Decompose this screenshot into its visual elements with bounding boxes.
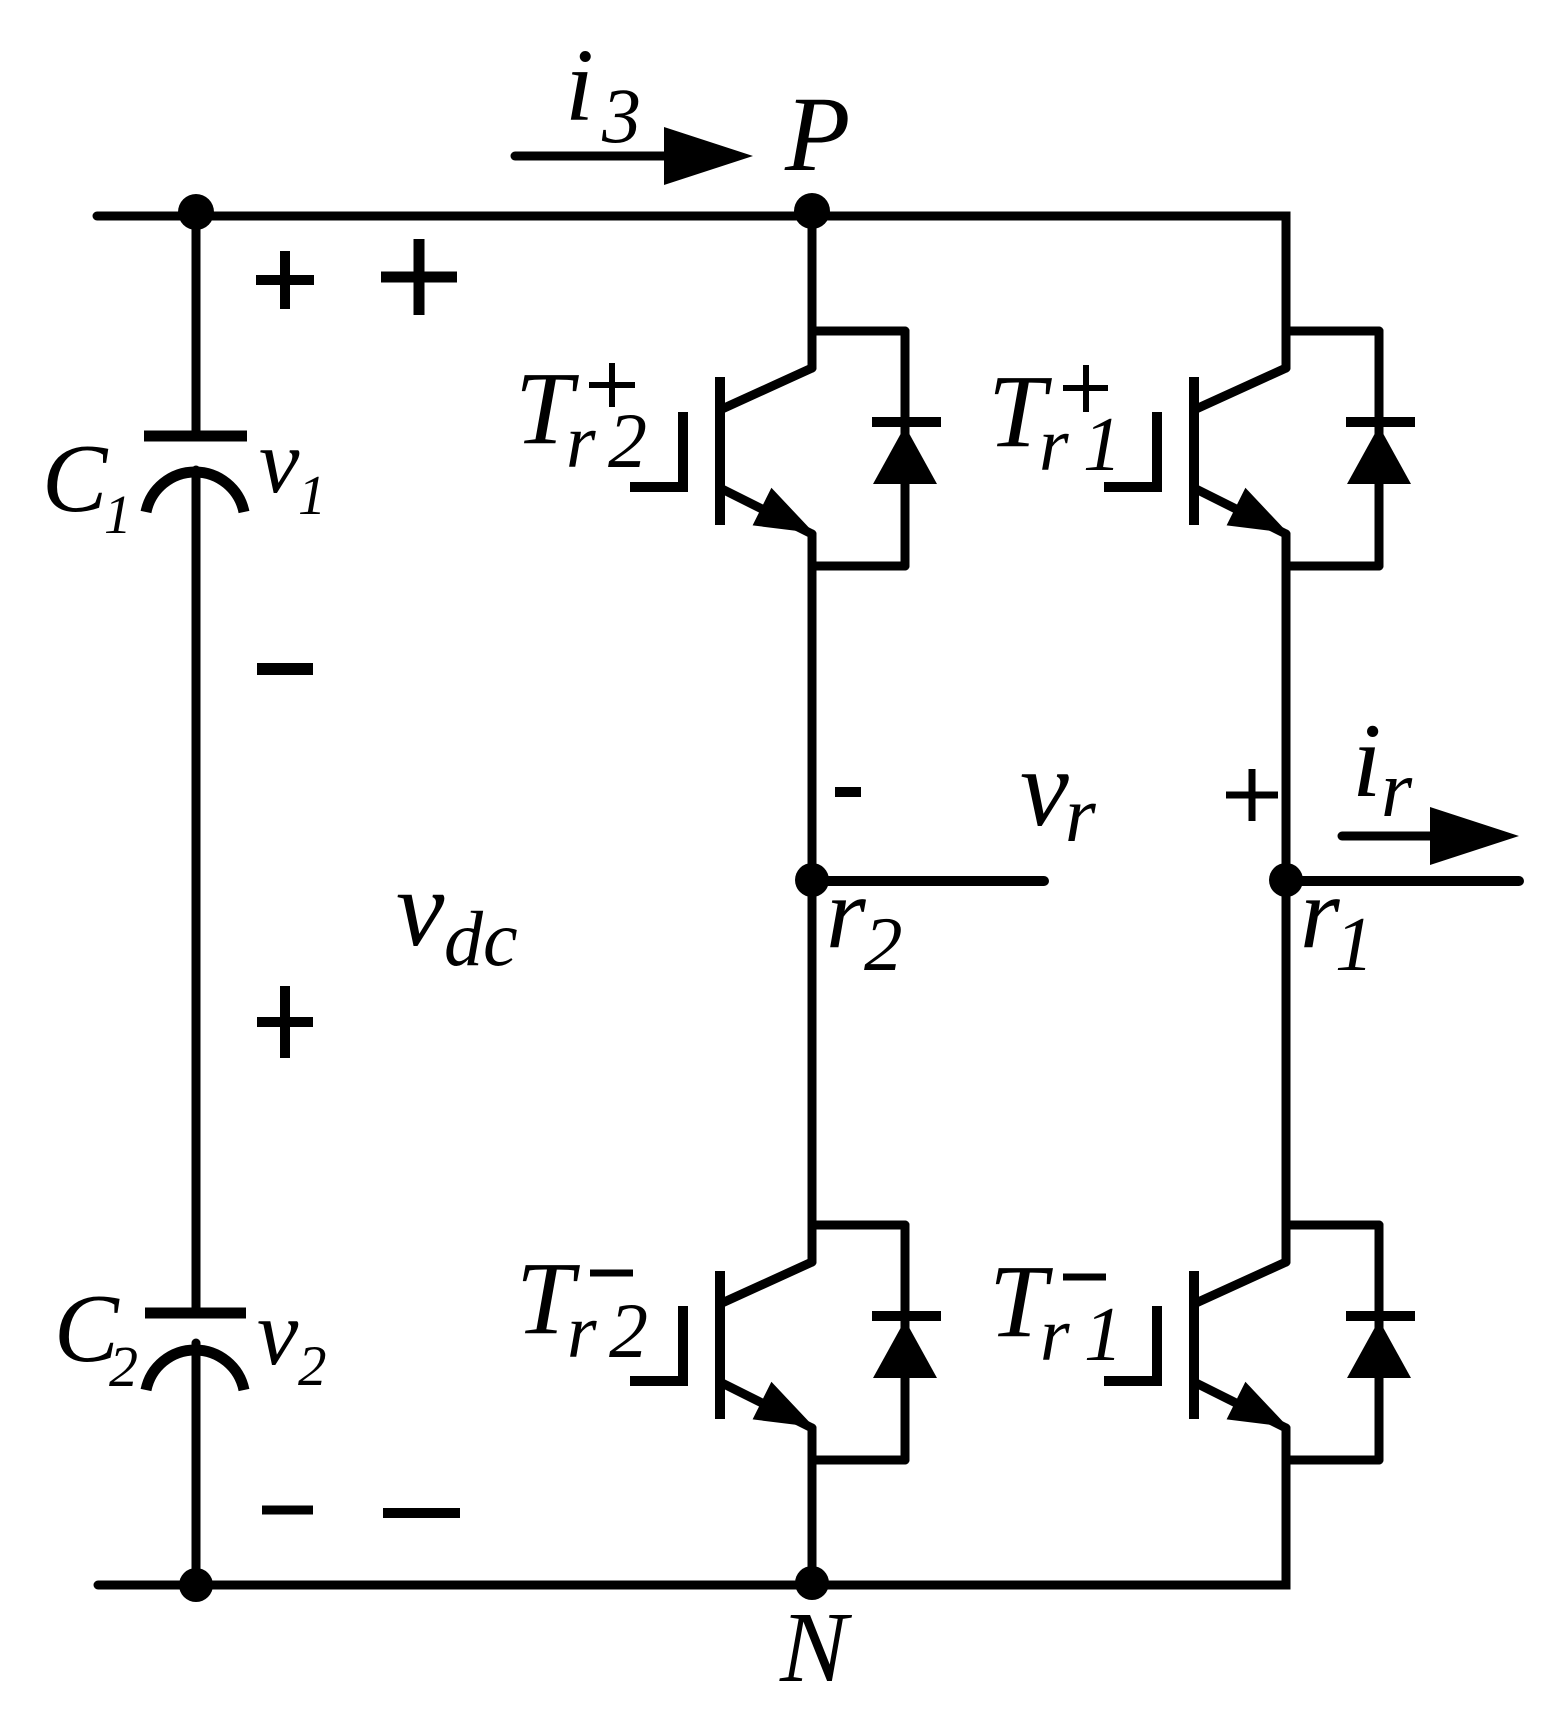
svg-text:3: 3 [601,72,641,159]
plus mark vr right polarity [1226,769,1278,821]
diode D(Tr1+) triangle [1347,426,1411,484]
current arrow ir shaft [1342,832,1436,841]
svg-text:dc: dc [444,895,518,982]
svg-text:2: 2 [608,397,647,484]
wire diode D(Tr2+) vertical [901,331,910,566]
wire diode D(Tr1-) vertical [1375,1225,1384,1460]
svg-text:1: 1 [1084,1291,1123,1377]
svg-text:r: r [1381,746,1413,834]
svg-text:1: 1 [298,465,326,527]
capacitor C2 top plate [145,1308,246,1319]
svg-text:v: v [257,1282,299,1385]
wire diode D(Tr2+) top branch [812,327,905,336]
svg-text:1: 1 [1083,401,1122,487]
svg-text:C: C [42,425,109,533]
node r2 junction dot [795,863,829,897]
wire diode D(Tr1+) top branch [1286,327,1379,336]
wire diode D(Tr1+) bottom branch [1286,562,1379,571]
capacitor C2 curved plate [146,1350,244,1390]
diode D(Tr2-) cathode bar [872,1311,941,1321]
capacitor C1 curved plate [146,472,244,512]
svg-text:v: v [1020,727,1069,849]
node r1 junction dot [1269,863,1303,897]
minus mark v2 polarity [262,1506,313,1515]
superscript minus of Tr1- [1063,1274,1106,1281]
transistor Tr2+ gate bar and lead [630,412,683,487]
svg-text:2: 2 [864,901,903,987]
node junction dot left top [178,194,214,230]
transistor Tr1- emitter arrowhead [1227,1382,1288,1427]
wire diode D(Tr1-) bottom branch [1286,1456,1379,1465]
transistor Tr2+ emitter arrowhead [753,488,814,533]
svg-text:r: r [567,1290,597,1374]
transistor Tr1+ body bar [1189,377,1199,525]
transistor Tr2+ collector wire from P [808,216,817,368]
svg-text:r: r [566,400,596,484]
svg-text:r: r [826,857,866,970]
diode D(Tr1-) cathode bar [1346,1311,1415,1321]
current arrow i3 head [664,127,753,185]
transistor Tr2- collector diagonal [722,1262,812,1303]
svg-text:2: 2 [298,1335,327,1398]
transistor Tr2- emitter arrowhead [753,1382,814,1427]
svg-text:1: 1 [1335,901,1374,987]
diode D(Tr2-) triangle [873,1320,937,1378]
superscript plus of Tr1+ [1063,365,1108,412]
capacitor C1 top plate [144,431,247,442]
svg-text:2: 2 [109,1334,138,1399]
transistor Tr1- collector diagonal [1196,1262,1286,1303]
minus mark vr left polarity [835,787,861,797]
wire diode D(Tr2-) top branch [812,1221,905,1230]
wire diode D(Tr2+) bottom branch [812,562,905,571]
wire left DC bus upper segment [192,216,201,431]
minus mark v1 polarity [257,663,313,675]
wire left DC bus middle segment [192,470,201,1308]
node N junction dot [795,1566,829,1600]
transistor Tr1- collector wire from node r1 [1282,880,1291,1262]
svg-text:v: v [396,848,445,969]
diode D(Tr1-) triangle [1347,1320,1411,1378]
svg-text:N: N [779,1591,853,1703]
transistor Tr1+ gate bar and lead [1104,412,1157,487]
svg-text:r: r [1040,1293,1070,1377]
wire diode D(Tr1-) top branch [1286,1221,1379,1230]
transistor Tr1+ collector diagonal [1196,368,1286,409]
transistor Tr1- emitter diagonal [1196,1383,1286,1428]
minus mark vdc bottom polarity [383,1508,460,1518]
superscript plus of Tr2+ [589,363,635,407]
wire output stub at node r1 [1286,876,1519,886]
transistor Tr1- body bar [1189,1271,1199,1419]
transistor Tr2+ emitter diagonal [722,489,812,534]
svg-text:i: i [1352,702,1381,819]
svg-text:i: i [565,28,594,143]
transistor Tr2+ body bar [715,377,725,525]
node P junction dot [794,193,830,229]
svg-text:1: 1 [104,484,132,545]
transistor Tr1- gate bar and lead [1104,1306,1157,1381]
wire bottom DC rail (node N rail) with right corner [98,1428,1286,1585]
wire top DC rail (node P rail) with right corner [97,216,1286,368]
superscript minus of Tr2- [590,1270,633,1277]
transistor Tr2+ emitter wire to node r2 [808,534,817,880]
svg-text:P: P [784,76,850,194]
diode D(Tr2+) triangle [873,426,937,484]
wire diode D(Tr2-) vertical [901,1225,910,1460]
plus mark v1 polarity [256,251,314,309]
transistor Tr1+ emitter wire to node r1 [1282,534,1291,880]
plus mark vdc top polarity [381,239,457,315]
transistor Tr2- body bar [715,1271,725,1419]
transistor Tr2- gate bar and lead [630,1306,683,1381]
transistor Tr2- emitter diagonal [722,1383,812,1428]
wire output stub at node r2 [812,876,1044,886]
plus mark v2 polarity [257,986,313,1058]
wire diode D(Tr1+) vertical [1375,331,1384,566]
current arrow i3 shaft [515,152,672,161]
current arrow ir head [1430,807,1519,865]
transistor Tr2- emitter wire to node N [808,1428,817,1585]
svg-text:r: r [1039,403,1069,487]
node junction dot left bottom [179,1568,213,1602]
transistor Tr1+ emitter arrowhead [1227,488,1288,533]
diode D(Tr2+) cathode bar [872,417,941,427]
diode D(Tr1+) cathode bar [1346,417,1415,427]
svg-text:v: v [259,411,300,512]
transistor Tr1+ emitter diagonal [1196,489,1286,534]
transistor Tr2+ collector diagonal [722,368,812,409]
transistor Tr2- collector wire from node r2 [808,880,817,1262]
svg-text:r: r [1065,772,1096,859]
wire diode D(Tr2-) bottom branch [812,1456,905,1465]
svg-text:2: 2 [609,1287,648,1374]
wire left DC bus lower segment [192,1343,201,1585]
svg-text:r: r [1300,857,1340,970]
